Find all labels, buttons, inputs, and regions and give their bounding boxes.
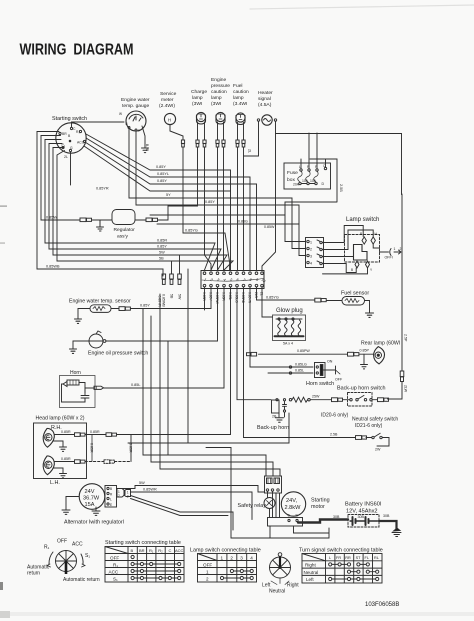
wire: 0.85R right vertical bbox=[129, 435, 133, 462]
svg-text:Neutral safety switch: Neutral safety switch bbox=[352, 417, 398, 423]
head lamp assembly box bbox=[34, 416, 87, 479]
wire: service meter to 0.85YG bus bbox=[182, 147, 184, 233]
heater signal bbox=[257, 90, 276, 125]
wire: service meter drop bbox=[170, 125, 183, 140]
wire: LH dashed run bbox=[85, 461, 104, 463]
wire: rear lamp ground drop bbox=[363, 354, 365, 364]
svg-text:S₁: S₁ bbox=[113, 577, 118, 582]
ground under gauge bbox=[142, 148, 149, 153]
back-up horn switch bbox=[337, 386, 386, 407]
svg-text:caution: caution bbox=[233, 89, 249, 95]
wire: 5B bus bbox=[57, 151, 233, 271]
horn switch bbox=[306, 360, 343, 388]
svg-text:Engine oil pressure switch: Engine oil pressure switch bbox=[88, 351, 148, 357]
wire: horn 0.85L to CN pin 4 bbox=[85, 287, 224, 388]
svg-text:Neutral: Neutral bbox=[304, 570, 319, 575]
ground at oil pressure switch bbox=[70, 349, 77, 353]
svg-text:ass'y: ass'y bbox=[117, 234, 129, 240]
svg-text:B: B bbox=[126, 122, 128, 126]
svg-text:0.85YG: 0.85YG bbox=[266, 296, 279, 300]
svg-text:temp. gauge: temp. gauge bbox=[122, 103, 149, 109]
svg-text:R₁: R₁ bbox=[113, 563, 118, 568]
wire: 0.85YL bus bbox=[86, 138, 250, 270]
wire: fuel lamp leg 1 to CN pin 6 bbox=[237, 147, 239, 270]
svg-text:B: B bbox=[110, 487, 112, 491]
svg-text:0.85Y: 0.85Y bbox=[156, 165, 166, 169]
svg-text:Engine: Engine bbox=[211, 77, 227, 83]
ground at RH lamp bbox=[60, 447, 67, 451]
svg-text:Charge: Charge bbox=[191, 89, 207, 95]
svg-text:Fuel sensor: Fuel sensor bbox=[341, 291, 369, 297]
wire: LH dashed run 2 bbox=[115, 461, 132, 463]
wire: resistor to connector bbox=[310, 399, 331, 401]
head lamp R.H. bbox=[43, 425, 62, 447]
svg-text:5W: 5W bbox=[178, 294, 182, 300]
svg-text:Right: Right bbox=[305, 563, 316, 568]
back-up horn resistor bbox=[289, 395, 320, 403]
glow plug bbox=[273, 308, 306, 346]
svg-text:Left: Left bbox=[306, 577, 314, 582]
wire: fuse box right loop 2.5B bbox=[285, 134, 402, 203]
svg-text:3: 3 bbox=[310, 255, 312, 259]
wire: alternator 5W to relay bbox=[117, 481, 265, 492]
svg-text:5A x 4: 5A x 4 bbox=[283, 342, 293, 346]
connector under fuel lamp 2 bbox=[242, 140, 245, 147]
starting switch connecting table bbox=[105, 540, 184, 582]
svg-text:G: G bbox=[70, 146, 73, 150]
connector under charge lamp 2 bbox=[203, 140, 206, 147]
wire: RH lamp lower lead to ground bbox=[54, 441, 64, 447]
wire: charge lamp leg 1 bbox=[197, 122, 199, 140]
wire: CN pin 7 to neutral safety switch 2.5B bbox=[244, 287, 356, 438]
fuel sensor connector bbox=[315, 298, 326, 302]
svg-text:0.85YR: 0.85YR bbox=[158, 296, 162, 308]
svg-text:5W: 5W bbox=[139, 481, 145, 485]
connector right of regulator bbox=[146, 218, 158, 222]
starting switch bbox=[52, 116, 87, 159]
svg-text:Heater: Heater bbox=[258, 90, 273, 96]
svg-text:25W: 25W bbox=[312, 395, 320, 399]
connector under pressure lamp 2 bbox=[222, 140, 225, 147]
svg-text:24V,: 24V, bbox=[286, 498, 297, 504]
svg-text:2.5B: 2.5B bbox=[339, 184, 343, 192]
engine water temp sensor bbox=[69, 299, 131, 313]
svg-text:lamp: lamp bbox=[233, 95, 244, 101]
svg-text:2L: 2L bbox=[248, 149, 252, 153]
turn signal rotary diagram bbox=[262, 553, 299, 595]
connector RH lamp 2 bbox=[106, 433, 117, 437]
wire: RH lamp upper lead bbox=[54, 430, 74, 435]
wire: pressure lamp leg 1 bbox=[217, 122, 219, 140]
wire: LH lamp lower lead to ground bbox=[54, 468, 64, 474]
wire: 0.85YR stub above feed vertical C bbox=[158, 294, 162, 309]
fuel caution lamp bbox=[233, 83, 249, 125]
connector on regulator left bbox=[80, 218, 92, 222]
svg-text:FL: FL bbox=[365, 556, 369, 560]
back-up horn bbox=[257, 399, 289, 431]
wire: lamp switch to connector bbox=[322, 226, 379, 274]
wire: CN pin9 to fuel sensor 0.85YG bbox=[257, 287, 315, 300]
svg-text:(4.5A): (4.5A) bbox=[258, 102, 272, 108]
svg-text:4: 4 bbox=[310, 262, 312, 266]
svg-text:(3.4WI: (3.4WI bbox=[233, 101, 247, 107]
svg-text:0.85W: 0.85W bbox=[46, 216, 57, 220]
wire: top fuse bus bbox=[276, 133, 317, 135]
wire: charge lamp to regulator bus bbox=[168, 147, 198, 206]
svg-text:ID21-6 only): ID21-6 only) bbox=[355, 423, 383, 429]
lamp switch connecting table bbox=[190, 548, 261, 583]
svg-text:return: return bbox=[27, 571, 40, 577]
svg-text:Safety relay: Safety relay bbox=[238, 503, 267, 509]
svg-text:30B: 30B bbox=[358, 515, 365, 519]
svg-text:0.85PW: 0.85PW bbox=[297, 349, 310, 353]
svg-text:0.85Y: 0.85Y bbox=[209, 292, 213, 301]
svg-text:0.85R: 0.85R bbox=[222, 292, 226, 301]
connector neutral safety switch bbox=[356, 436, 367, 440]
wire: pressure lamp leg 1 to CN pin 3 bbox=[217, 147, 219, 270]
svg-text:Back-up horn: Back-up horn bbox=[257, 425, 289, 431]
svg-text:2.8kW: 2.8kW bbox=[285, 505, 302, 511]
svg-text:0.85G: 0.85G bbox=[238, 220, 248, 224]
svg-text:12V, 45Ahx2: 12V, 45Ahx2 bbox=[346, 509, 378, 515]
service meter bbox=[159, 91, 177, 125]
wire: CN pin 6 to back-up horn bbox=[237, 287, 271, 400]
svg-text:OFF: OFF bbox=[203, 563, 212, 568]
wire: BR to 0.85WB bus bbox=[37, 132, 163, 277]
svg-text:0.85YR: 0.85YR bbox=[248, 292, 252, 304]
svg-text:C: C bbox=[169, 548, 172, 553]
ground at water temp sensor bbox=[75, 319, 82, 323]
connector under service meter bbox=[181, 140, 184, 147]
svg-text:5B: 5B bbox=[170, 294, 174, 299]
starting motor bbox=[268, 492, 330, 526]
wire: regulator to right bbox=[135, 206, 168, 220]
connector RH lamp bbox=[75, 433, 86, 437]
ground at regulator bbox=[97, 220, 104, 231]
svg-text:5Y: 5Y bbox=[166, 193, 171, 197]
svg-text:lamp: lamp bbox=[192, 95, 203, 101]
ground at rear lamp bbox=[361, 365, 368, 369]
svg-text:BR: BR bbox=[62, 132, 67, 136]
wire: oil switch to CN pin 3 bbox=[106, 287, 218, 341]
svg-text:OFF: OFF bbox=[57, 539, 67, 545]
svg-text:10A: 10A bbox=[302, 179, 309, 183]
svg-text:15A: 15A bbox=[85, 502, 95, 508]
wire: heater signal left leg to fuse bus bbox=[244, 121, 259, 156]
wire: sensor to CN pin 2 0.85Y bbox=[111, 287, 211, 309]
svg-text:Back-up horn switch: Back-up horn switch bbox=[337, 386, 386, 392]
battery bbox=[333, 502, 390, 528]
svg-text:30B: 30B bbox=[333, 515, 340, 519]
wire: charge lamp leg 2 bbox=[204, 122, 206, 140]
connector under fuel lamp 1 bbox=[236, 140, 239, 147]
svg-text:1: 1 bbox=[310, 241, 312, 245]
wire: gauge ground drop bbox=[142, 126, 145, 148]
connector pair C left of CN1 bbox=[178, 255, 182, 300]
lamp switch bbox=[345, 217, 402, 272]
svg-text:Alternator Iwith regulatorl: Alternator Iwith regulatorl bbox=[64, 520, 124, 526]
connector on right trunk bbox=[400, 371, 404, 382]
wire: horn switch lower 0.85L bbox=[268, 369, 313, 375]
wire: oil switch to ground bbox=[73, 341, 89, 349]
svg-text:Regulator: Regulator bbox=[114, 227, 136, 233]
svg-text:0.85L: 0.85L bbox=[295, 369, 304, 373]
svg-text:20A: 20A bbox=[293, 183, 300, 187]
svg-text:OFF: OFF bbox=[110, 556, 119, 561]
wire: 0.85Y bus from gauge to lamp switch pin3 bbox=[136, 131, 306, 256]
connector on rear lamp feed bbox=[247, 352, 257, 356]
wire: bus y443 to back-up horn area bbox=[128, 269, 289, 443]
wire: 0.85R bus bbox=[45, 140, 215, 271]
starting switch rotary diagram bbox=[27, 539, 100, 584]
wire: fuel lamp leg 1 bbox=[237, 122, 239, 140]
svg-text:lamp: lamp bbox=[211, 95, 222, 101]
svg-text:B: B bbox=[351, 268, 353, 272]
wire: headlamp feed to CN pin 5 bbox=[117, 287, 231, 435]
svg-text:0.85Y: 0.85Y bbox=[157, 245, 167, 249]
alternator bbox=[64, 484, 124, 526]
svg-text:103F06058B: 103F06058B bbox=[365, 602, 399, 608]
engine water temp gauge bbox=[119, 97, 150, 151]
svg-text:Starting switch connecting tab: Starting switch connecting table bbox=[105, 540, 181, 546]
svg-text:S₁: S₁ bbox=[85, 553, 90, 559]
wire: 0.85RB drop from CN pin 1 bbox=[204, 287, 206, 310]
svg-text:2W: 2W bbox=[375, 448, 381, 452]
svg-text:R₂: R₂ bbox=[158, 548, 163, 553]
svg-text:P: P bbox=[360, 232, 362, 236]
svg-text:Service: Service bbox=[160, 91, 177, 97]
water temp sensor connector bbox=[119, 307, 130, 311]
wire: 0.85G mid bus bbox=[150, 215, 285, 224]
ground at back-up horn bbox=[276, 418, 284, 422]
svg-text:pressure: pressure bbox=[211, 83, 230, 89]
svg-text:WIRING DIAGRAM: WIRING DIAGRAM bbox=[20, 42, 134, 59]
turn signal switch connecting table bbox=[299, 548, 383, 584]
svg-text:Battery INS60I: Battery INS60I bbox=[345, 502, 382, 508]
ground at LH lamp bbox=[60, 474, 67, 478]
wire: alternator diag to motor bottom bbox=[131, 496, 234, 531]
svg-text:1: 1 bbox=[221, 556, 224, 561]
wire: P2 to 0.85W regulator bus bbox=[41, 136, 80, 221]
svg-text:E: E bbox=[110, 503, 112, 507]
connector under pressure lamp 1 bbox=[216, 140, 219, 147]
svg-text:5W: 5W bbox=[159, 251, 165, 255]
svg-text:24V: 24V bbox=[85, 489, 95, 495]
svg-text:0.85L: 0.85L bbox=[131, 383, 141, 387]
svg-text:Turn signal switch connecting: Turn signal switch connecting table bbox=[299, 548, 383, 554]
horn connector plug bbox=[94, 386, 104, 389]
wire: charge lamp leg 2 to CN pin 2 bbox=[205, 147, 212, 270]
wire: fuse box feeds from top bbox=[301, 133, 326, 169]
fuse 2 bbox=[306, 171, 310, 182]
CN1 lower wire labels bbox=[202, 292, 264, 305]
svg-text:0.85L: 0.85L bbox=[228, 292, 232, 300]
svg-text:3: 3 bbox=[240, 556, 243, 561]
svg-text:I: I bbox=[392, 256, 393, 260]
safety relay bbox=[238, 476, 282, 509]
wire: thick battery bus from motor B bbox=[298, 520, 348, 523]
wire: fuel lamp leg 2 to CN pin 7 bbox=[243, 147, 245, 270]
svg-text:0.85LG: 0.85LG bbox=[235, 292, 239, 303]
rear lamp bbox=[361, 341, 400, 364]
connector under charge lamp 1 bbox=[196, 140, 199, 147]
wire: 0.85Y bus lower bbox=[49, 144, 221, 271]
svg-text:Starting: Starting bbox=[311, 498, 330, 504]
svg-text:36.7W: 36.7W bbox=[83, 496, 100, 502]
svg-text:Head lamp (60W x 2): Head lamp (60W x 2) bbox=[36, 416, 85, 422]
svg-text:T: T bbox=[138, 129, 140, 133]
wire: 0.85W to regulator bbox=[45, 216, 112, 221]
svg-text:0.85R: 0.85R bbox=[129, 443, 133, 453]
svg-text:0.85YR: 0.85YR bbox=[96, 187, 109, 191]
svg-text:0.85R: 0.85R bbox=[90, 430, 100, 434]
svg-text:Fuel: Fuel bbox=[233, 83, 243, 89]
wire: horn switch upper 0.85LG from CN pin 8 bbox=[250, 287, 313, 368]
wire: alternator 0.85WR bbox=[131, 488, 253, 520]
svg-text:ACC: ACC bbox=[175, 548, 184, 553]
connector back-up horn switch right bbox=[378, 398, 389, 402]
wire: feed vertical B to safety relay bbox=[151, 316, 273, 476]
svg-text:0.85P: 0.85P bbox=[360, 349, 370, 353]
wire: fuel lamp leg 2 bbox=[243, 122, 245, 140]
wire: starter enclosure loop bbox=[231, 467, 329, 538]
fuse 1 bbox=[298, 171, 302, 182]
wire: CN pin10 to glow plug bbox=[262, 287, 273, 317]
svg-text:H: H bbox=[168, 117, 171, 122]
svg-text:ON: ON bbox=[327, 360, 333, 364]
svg-text:1: 1 bbox=[206, 570, 209, 575]
svg-text:0.85Y: 0.85Y bbox=[205, 200, 215, 204]
wire: left stub at y442 bbox=[206, 448, 231, 468]
svg-text:0.85RW: 0.85RW bbox=[215, 292, 219, 305]
svg-text:L.H.: L.H. bbox=[50, 480, 60, 486]
wire: 0.85Y top bus bbox=[86, 134, 231, 270]
svg-text:Automatic return: Automatic return bbox=[63, 577, 100, 583]
wire: feed vertical A to safety relay bbox=[143, 309, 266, 477]
svg-text:BR: BR bbox=[139, 548, 145, 553]
svg-text:0.85R: 0.85R bbox=[202, 292, 206, 301]
svg-text:0.85WB: 0.85WB bbox=[46, 265, 60, 269]
svg-text:(3WI: (3WI bbox=[211, 101, 221, 107]
svg-text:2LR: 2LR bbox=[254, 292, 258, 299]
svg-text:Right: Right bbox=[287, 583, 299, 589]
charge lamp bbox=[191, 89, 207, 124]
alternator plug bbox=[117, 489, 131, 499]
svg-text:ST: ST bbox=[356, 556, 362, 560]
svg-text:0.85Y: 0.85Y bbox=[140, 304, 150, 308]
svg-text:RR: RR bbox=[345, 556, 351, 560]
wire: heater signal right leg to CN pin 10 bbox=[262, 121, 276, 270]
connector back-up horn switch left bbox=[332, 398, 343, 402]
connector pair A left of CN1 bbox=[162, 274, 166, 307]
svg-text:0.85Y: 0.85Y bbox=[157, 179, 167, 183]
wire: 0.85R vertical link between lamp leads bbox=[90, 435, 94, 462]
connector pair B left of CN1 bbox=[170, 261, 174, 299]
svg-text:R₁: R₁ bbox=[149, 548, 154, 553]
svg-text:(2.4WI): (2.4WI) bbox=[159, 103, 175, 109]
svg-text:2: 2 bbox=[400, 247, 402, 251]
svg-text:0.85YL: 0.85YL bbox=[157, 172, 169, 176]
svg-text:Neutral: Neutral bbox=[269, 589, 285, 595]
svg-text:ACC: ACC bbox=[109, 570, 119, 575]
wire: pressure lamp leg 2 bbox=[223, 122, 225, 140]
svg-text:Lamp switch connecting table: Lamp switch connecting table bbox=[190, 548, 261, 554]
svg-text:caution: caution bbox=[211, 89, 227, 95]
connector LH lamp bbox=[75, 460, 86, 464]
svg-text:2.5B: 2.5B bbox=[330, 433, 338, 437]
svg-text:2L: 2L bbox=[64, 155, 68, 159]
wire: LH lamp upper lead bbox=[54, 457, 74, 462]
svg-text:0.85WR: 0.85WR bbox=[143, 488, 157, 492]
svg-text:5B: 5B bbox=[159, 257, 164, 261]
svg-text:L: L bbox=[329, 556, 331, 560]
wire: 0.85W mid bus bbox=[157, 224, 299, 229]
wire: battery to ground thick bbox=[379, 521, 397, 529]
svg-text:30B: 30B bbox=[383, 514, 390, 518]
rear lamp connector bbox=[348, 352, 359, 356]
fuse box bbox=[284, 163, 331, 189]
head lamp L.H. bbox=[43, 456, 60, 486]
svg-text:Horn: Horn bbox=[70, 370, 81, 376]
wire: sensor left leg to ground bbox=[78, 309, 90, 320]
wire: feed vertical D bbox=[167, 341, 169, 455]
svg-text:R₁: R₁ bbox=[44, 545, 50, 551]
wire: 0.85YR bus to lamp switch pin1 bbox=[84, 146, 306, 242]
wire: rear lamp 0.85P lead bbox=[259, 349, 374, 355]
svg-text:Fuse: Fuse bbox=[287, 170, 298, 176]
svg-text:motor: motor bbox=[311, 504, 325, 510]
svg-text:10A: 10A bbox=[310, 179, 317, 183]
engine pressure caution lamp bbox=[211, 77, 230, 124]
lamp switch connector bbox=[306, 238, 324, 268]
svg-text:(3WI: (3WI bbox=[192, 101, 202, 107]
svg-text:ACC: ACC bbox=[77, 141, 85, 145]
svg-text:Starting switch: Starting switch bbox=[52, 116, 87, 122]
svg-text:0.85R: 0.85R bbox=[90, 443, 94, 453]
svg-text:W: W bbox=[119, 112, 122, 116]
wire: 2L stub under switch bbox=[70, 152, 72, 185]
svg-text:Lamp switch: Lamp switch bbox=[346, 217, 379, 223]
wire: right trunk to back-up horn switch bbox=[388, 382, 408, 400]
wire: relay to motor verticals bbox=[268, 491, 280, 517]
svg-text:L: L bbox=[110, 498, 112, 502]
svg-text:0.85R: 0.85R bbox=[61, 430, 71, 434]
svg-text:Glow plug: Glow plug bbox=[276, 308, 303, 314]
fuse 3 bbox=[314, 171, 318, 182]
wire: feed vertical C to safety relay bbox=[160, 309, 280, 477]
svg-text:2: 2 bbox=[310, 248, 312, 252]
neutral safety switch bbox=[321, 413, 398, 452]
wire: 5Y bus from gauge to lamp switch pin2 bbox=[129, 129, 306, 249]
wire: 0.85Y mid bus bbox=[85, 142, 257, 270]
svg-text:D: D bbox=[322, 182, 325, 186]
svg-text:2: 2 bbox=[230, 556, 233, 561]
svg-text:0.85RB: 0.85RB bbox=[241, 292, 245, 304]
svg-text:RL: RL bbox=[374, 556, 379, 560]
ground at battery bbox=[392, 528, 401, 537]
svg-text:ACC: ACC bbox=[72, 542, 83, 548]
connector LH lamp 2 dashed bbox=[104, 460, 115, 464]
fuel sensor bbox=[327, 291, 370, 314]
wire: 5W bus bbox=[53, 148, 227, 271]
svg-text:meter: meter bbox=[161, 97, 174, 103]
ground at alternator E bbox=[92, 507, 100, 515]
svg-text:0.85W: 0.85W bbox=[264, 225, 275, 229]
svg-text:2: 2 bbox=[118, 494, 120, 498]
wire: RH lamp 0.85R to second connector bbox=[85, 430, 106, 435]
svg-text:FR: FR bbox=[336, 556, 341, 560]
svg-text:2LW: 2LW bbox=[404, 385, 408, 393]
